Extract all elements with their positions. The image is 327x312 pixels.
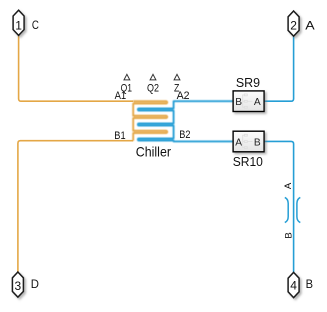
svg-text:A: A [305, 21, 315, 33]
svg-text:Q2: Q2 [147, 83, 159, 95]
SR10 ghost icon [243, 134, 253, 148]
chiller finger cores (blue) [139, 110, 173, 140]
svg-text:B1: B1 [114, 130, 125, 142]
physical signal triangle Q2 [150, 74, 156, 80]
svg-text:A: A [283, 182, 294, 189]
svg-text:A: A [254, 97, 261, 108]
svg-text:D: D [31, 279, 39, 291]
port 2 [288, 11, 299, 36]
svg-text:A: A [235, 137, 242, 148]
port 1 [13, 10, 24, 35]
SR9 ghost icon [243, 94, 253, 108]
chiller orange serpentine A1-B1 [133, 101, 167, 141]
physical signal triangle Z [174, 74, 180, 80]
wire SR9 to A2, chiller blue serpentine, B2 to SR10 [138, 101, 233, 141]
svg-text:1: 1 [15, 18, 22, 32]
svg-text:A1: A1 [115, 90, 127, 102]
wire SR10 to port B (port4), through restriction [264, 141, 293, 272]
svg-text:B: B [235, 97, 242, 108]
svg-text:2: 2 [290, 19, 297, 33]
svg-text:SR9: SR9 [236, 75, 260, 90]
port 4 [288, 272, 299, 297]
wire A (port2) to SR9 (blue) [264, 36, 293, 101]
svg-text:3: 3 [15, 279, 22, 293]
svg-text:A2: A2 [177, 90, 190, 102]
block SR10 [233, 131, 264, 152]
physical signal triangle Q1 [124, 74, 130, 80]
svg-text:C: C [32, 20, 39, 32]
svg-text:B: B [283, 232, 294, 238]
restriction right bracket [297, 197, 300, 222]
svg-text:SR10: SR10 [233, 154, 263, 169]
svg-text:B: B [306, 279, 314, 291]
svg-text:4: 4 [290, 279, 297, 293]
wire C to A1 (orange) [19, 35, 134, 101]
chiller finger cores (orange) [134, 102, 166, 131]
svg-text:Chiller: Chiller [136, 144, 171, 160]
restriction left bracket [285, 197, 288, 222]
port 3 [12, 272, 23, 297]
svg-text:B2: B2 [179, 129, 190, 141]
wire B1 to D (orange) [18, 141, 133, 273]
block SR9 [233, 91, 264, 112]
svg-text:B: B [254, 137, 261, 148]
